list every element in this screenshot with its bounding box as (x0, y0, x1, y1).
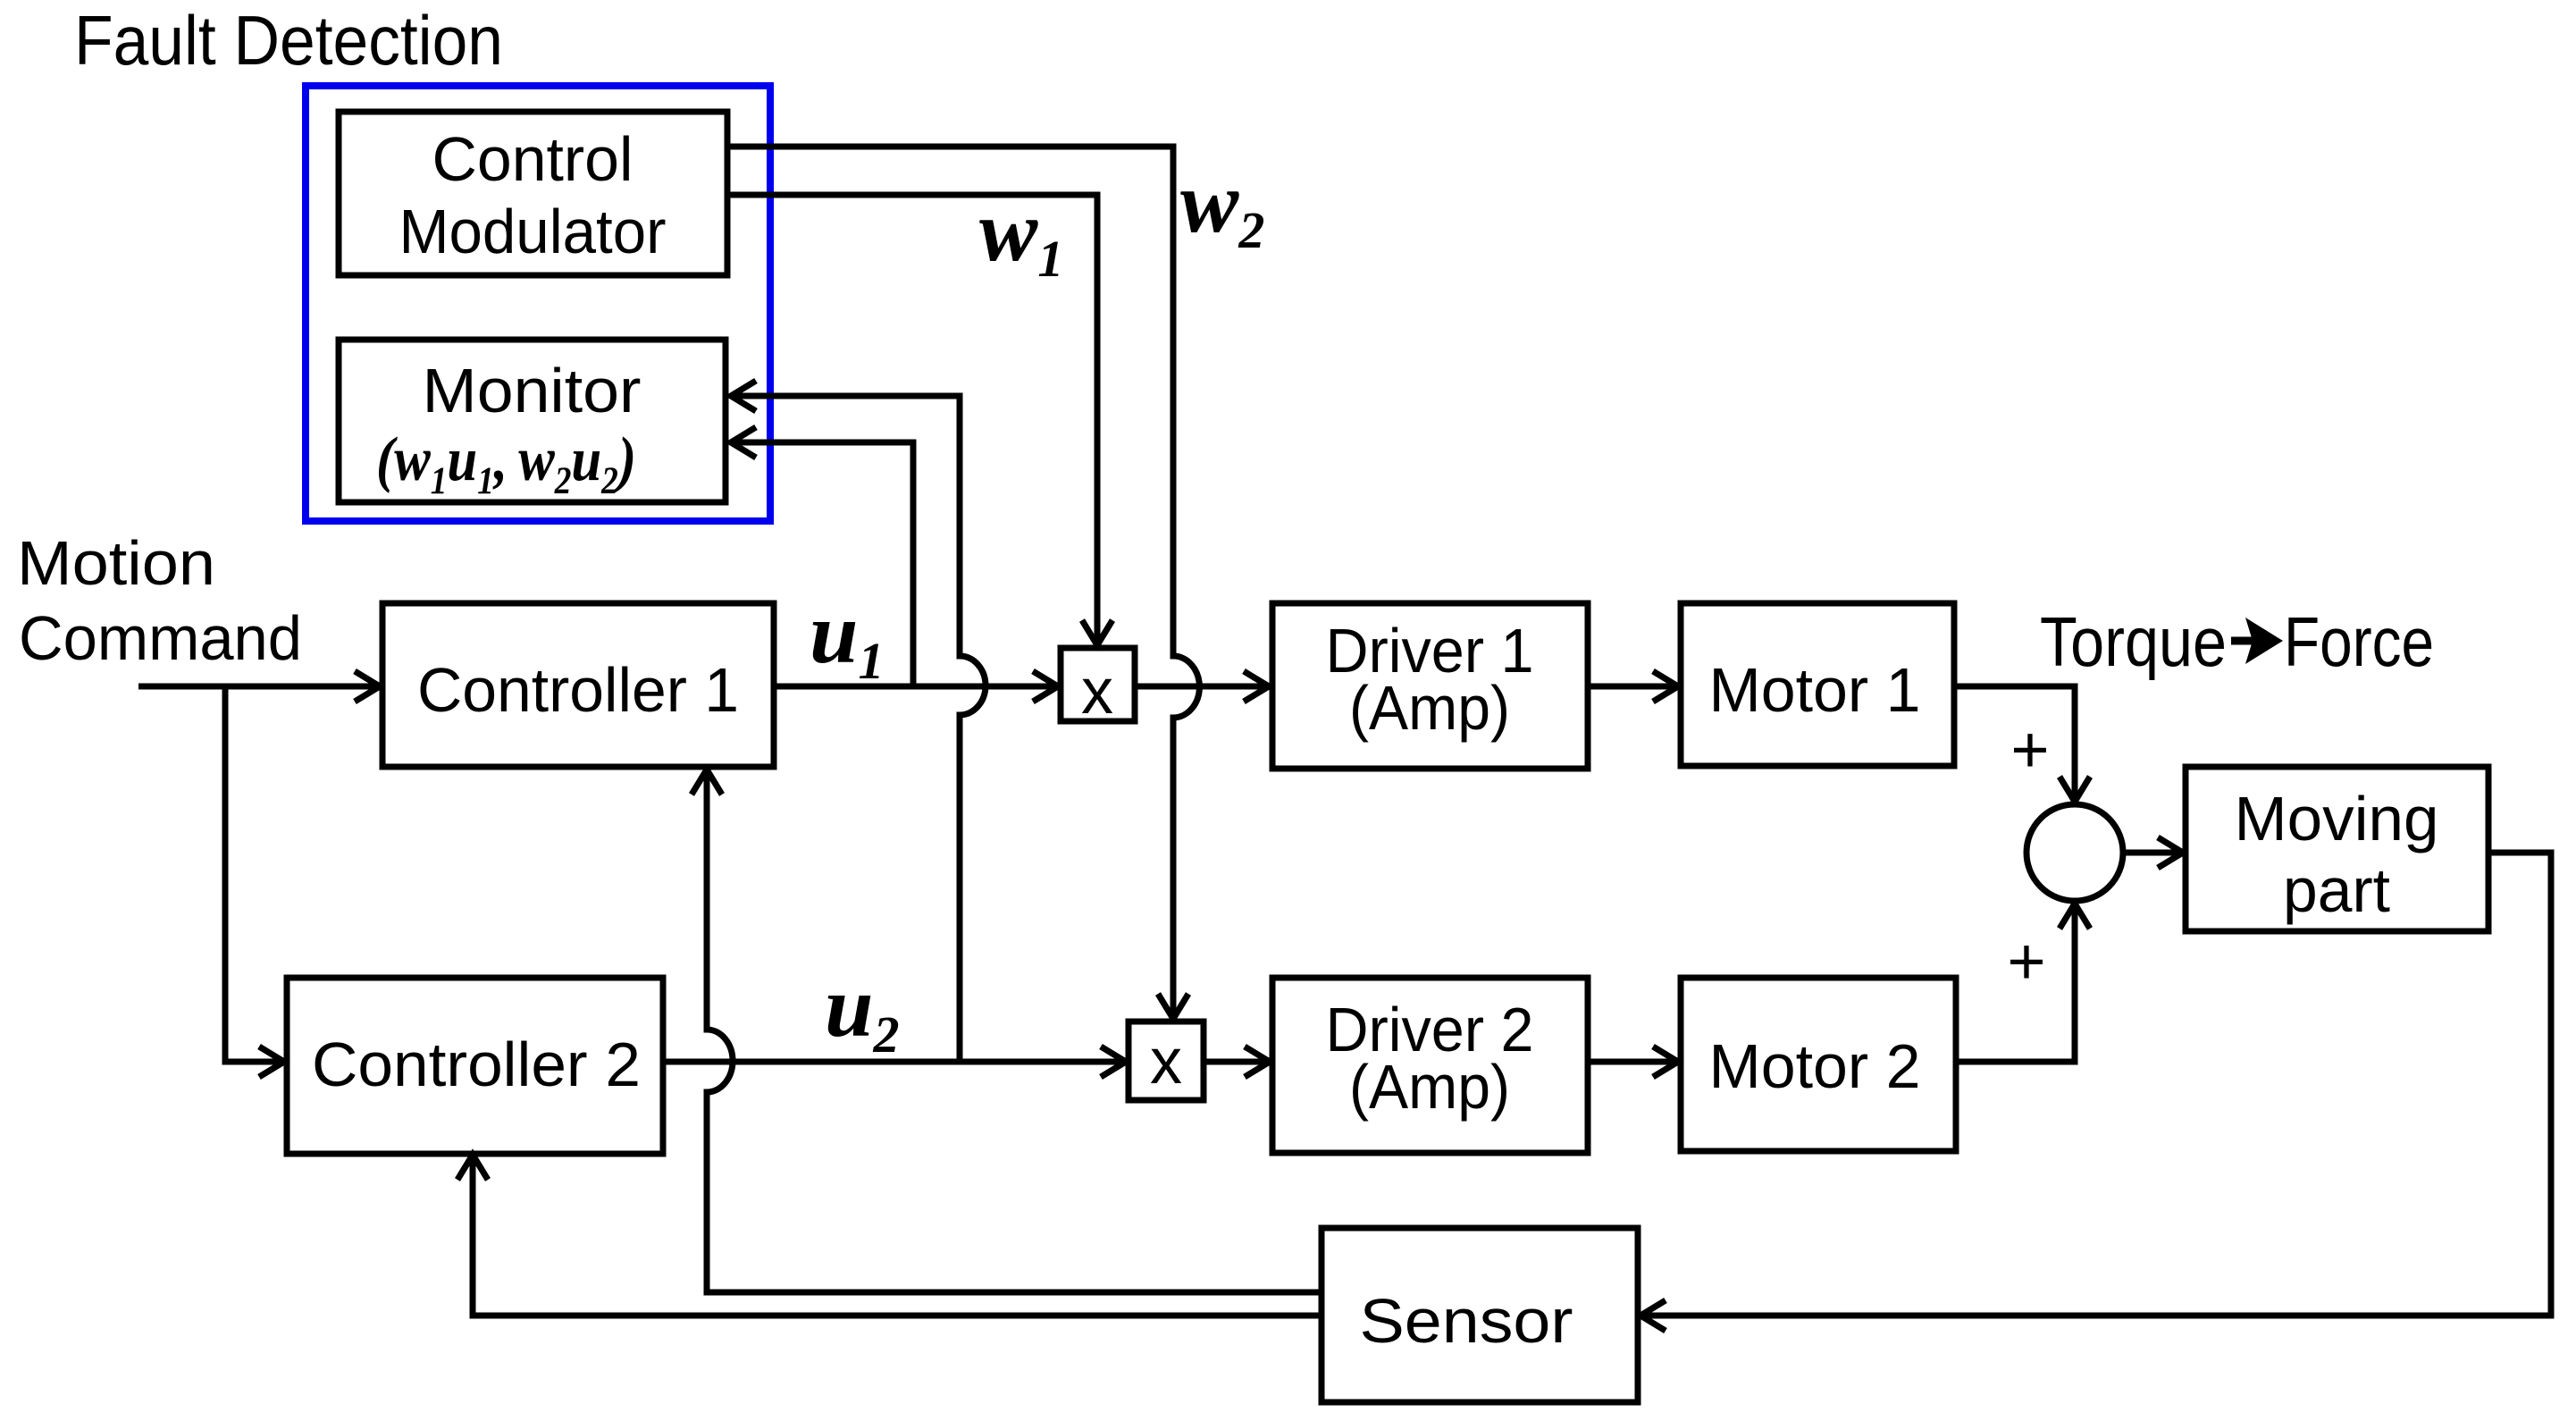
wire branch to Controller 2 (225, 686, 284, 1062)
arrowhead into Controller 1 bottom (692, 769, 722, 795)
arrowhead into summing junction top (2060, 777, 2090, 802)
arrowhead into Controller 2 (259, 1047, 284, 1077)
svg-text:Motion: Motion (17, 528, 215, 598)
arrowhead into Motor 2 (1653, 1047, 1678, 1077)
svg-text:Moving: Moving (2235, 784, 2439, 853)
arrowhead into X1 (1033, 671, 1058, 702)
block Control Modulator (339, 112, 727, 275)
block Motor 2 (1681, 978, 1956, 1151)
svg-text:Fault Detection: Fault Detection (74, 1, 503, 80)
svg-text:Torque: Torque (2040, 602, 2227, 681)
wire w1 Control Modulator to X1 (730, 195, 1097, 645)
svg-text:Motor 2: Motor 2 (1709, 1031, 1921, 1101)
multiplier X2 (1129, 1022, 1204, 1100)
svg-text:(Amp): (Amp) (1349, 1052, 1510, 1122)
block Motor 1 (1681, 603, 1954, 766)
svg-text:Sensor: Sensor (1360, 1286, 1573, 1356)
wire X1 to Driver 1 (1135, 684, 1269, 690)
svg-text:x: x (1081, 656, 1113, 727)
svg-text:x: x (1150, 1026, 1182, 1097)
arrowhead into Controller 1 (355, 671, 380, 702)
arrowhead into summing junction bottom (2060, 904, 2090, 929)
svg-text:(Amp): (Amp) (1349, 673, 1510, 743)
svg-text:Monitor: Monitor (423, 356, 642, 425)
wire u1 tap to Monitor lower input (731, 442, 913, 686)
wire Sensor to Controller 1 (hop over u2) (707, 769, 1322, 1292)
svg-text:Force: Force (2284, 602, 2434, 681)
arrowhead into Driver 1 (1244, 671, 1269, 702)
block Driver 1 (1272, 603, 1588, 769)
arrowhead into Motor 1 (1653, 671, 1678, 702)
wire summing junction to Moving part (2123, 850, 2183, 856)
svg-text:+: + (2007, 924, 2045, 998)
wire u2 tap to Monitor upper input (hop over u1) (731, 396, 986, 1062)
summing junction (2026, 804, 2123, 901)
arrowhead into Moving part (2158, 837, 2183, 868)
fault detection blue box (306, 86, 770, 521)
block Moving part (2186, 767, 2488, 931)
wire Driver 2 to Motor 2 (1588, 1059, 1678, 1065)
svg-text:Control: Control (432, 124, 634, 194)
svg-text:+: + (2010, 712, 2049, 786)
wire u2 Controller 2 to X2 (663, 1059, 1126, 1065)
multiplier X1 (1061, 648, 1135, 721)
svg-text:Controller 2: Controller 2 (312, 1030, 641, 1099)
svg-text:Modulator: Modulator (399, 197, 667, 266)
wire X2 to Driver 2 (1204, 1059, 1270, 1065)
wire Sensor to Controller 2 (473, 1155, 1322, 1316)
arrowhead into Monitor upper (731, 381, 756, 411)
wire Motor 1 to summing junction (1954, 686, 2075, 802)
wire u1 Controller 1 to X1 (776, 684, 1058, 690)
arrowhead w2 into X2 top (1158, 994, 1188, 1019)
block Controller 2 (287, 978, 663, 1154)
arrowhead into X2 (1101, 1047, 1126, 1077)
wire w2 Control Modulator to X2 (hop over row 1) (730, 147, 1199, 1019)
wire Moving part to Sensor (1640, 853, 2551, 1316)
wire Driver 1 to Motor 1 (1588, 684, 1678, 690)
svg-text:(w1u1, w2u2): (w1u1, w2u2) (376, 425, 636, 501)
block Controller 1 (382, 603, 774, 767)
svg-text:Controller 1: Controller 1 (417, 655, 739, 725)
arrowhead w1 into X1 top (1082, 620, 1112, 645)
svg-text:part: part (2283, 855, 2390, 925)
arrowhead into Monitor lower (731, 427, 756, 458)
arrowhead into Sensor (1640, 1300, 1666, 1331)
svg-text:Motor 1: Motor 1 (1709, 655, 1921, 725)
svg-text:Command: Command (19, 603, 302, 673)
wire motion command to Controller 1 (138, 684, 380, 690)
wire Motor 2 to summing junction (1956, 904, 2075, 1062)
block Driver 2 (1272, 978, 1588, 1153)
arrowhead into Controller 2 bottom (457, 1155, 488, 1180)
block Sensor (1322, 1228, 1638, 1402)
arrowhead into Driver 2 (1245, 1047, 1270, 1077)
block Monitor (339, 340, 726, 502)
